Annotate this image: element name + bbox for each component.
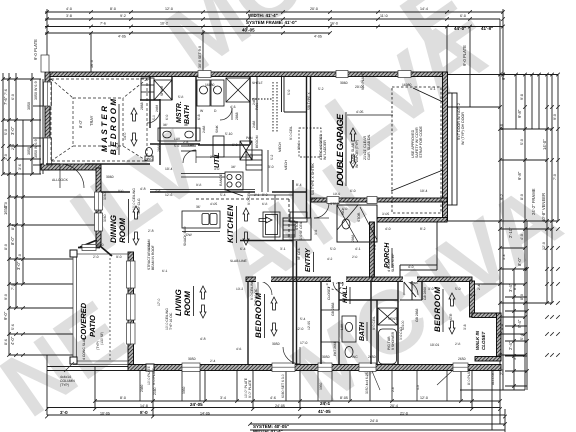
svg-text:4'-0: 4'-0 bbox=[408, 265, 414, 269]
bottom dim line 5 bbox=[250, 429, 505, 431]
window living west 1 bbox=[127, 261, 136, 288]
svg-text:3'-0: 3'-0 bbox=[428, 287, 434, 291]
svg-text:WC: WC bbox=[352, 355, 358, 359]
top dim vertical x447ext bbox=[446, 27, 448, 73]
svg-text:8'-0: 8'-0 bbox=[11, 224, 15, 230]
svg-text:4'-1: 4'-1 bbox=[355, 247, 361, 251]
svg-text:2'-8: 2'-8 bbox=[148, 229, 154, 233]
top dim vertical x203 bbox=[202, 30, 204, 73]
util south wall bbox=[198, 144, 250, 146]
leaders bottom right bbox=[64, 362, 452, 390]
svg-text:(130 SF): (130 SF) bbox=[100, 332, 104, 345]
svg-text:SHELF: SHELF bbox=[252, 81, 263, 85]
svg-text:3050 4x4 6-25: 3050 4x4 6-25 bbox=[365, 372, 369, 394]
top dim vertical x91 bbox=[90, 33, 92, 72]
svg-text:SINK: SINK bbox=[215, 125, 219, 133]
svg-text:16080: 16080 bbox=[402, 83, 412, 87]
svg-text:6'-0: 6'-0 bbox=[165, 114, 169, 120]
svg-text:9'-0: 9'-0 bbox=[553, 114, 557, 120]
left dim vertical x9 bbox=[8, 73, 10, 355]
entry west wall bbox=[292, 241, 294, 364]
room labels (rotated) bbox=[79, 99, 486, 350]
svg-text:MSTR.: MSTR. bbox=[176, 101, 183, 123]
bottom dim vertical x237 bbox=[236, 371, 238, 401]
bottom dim vertical x47 bbox=[46, 355, 48, 415]
svg-text:ALLCOCK: ALLCOCK bbox=[52, 178, 69, 182]
window top wall 1 bbox=[198, 71, 211, 78]
svg-text:9'-2: 9'-2 bbox=[120, 14, 126, 18]
svg-text:7'-0: 7'-0 bbox=[553, 174, 557, 180]
left dim vertical x3 bbox=[2, 73, 4, 174]
svg-text:24'-1: 24'-1 bbox=[320, 401, 331, 406]
hall east wall bbox=[338, 281, 340, 310]
svg-text:3'-6: 3'-6 bbox=[18, 164, 22, 170]
top dim line 1 bbox=[45, 11, 503, 13]
svg-text:8'-0: 8'-0 bbox=[140, 410, 148, 415]
top dim vertical x47 bbox=[46, 9, 48, 72]
attic access dashed bbox=[299, 128, 321, 157]
side dim numbers bbox=[4, 81, 557, 375]
svg-text:2080: 2080 bbox=[140, 384, 144, 392]
bottom dim vertical x461 bbox=[460, 371, 462, 401]
right connector y160 bbox=[500, 159, 547, 161]
scattered annotations bbox=[52, 72, 506, 395]
window top wall 3 bbox=[336, 71, 348, 78]
svg-text:BEAM IN ROOF: BEAM IN ROOF bbox=[151, 245, 155, 270]
svg-text:24'-0: 24'-0 bbox=[370, 419, 378, 423]
left dim vertical x23 bbox=[22, 120, 24, 284]
svg-text:19'-4: 19'-4 bbox=[420, 189, 428, 193]
svg-text:4'-6: 4'-6 bbox=[236, 347, 242, 351]
svg-text:3'-8: 3'-8 bbox=[66, 14, 72, 18]
left dim vertical x32 bbox=[31, 73, 33, 174]
svg-text:STRAP FOR CODE: STRAP FOR CODE bbox=[419, 126, 423, 158]
svg-text:24'-2" FRAME: 24'-2" FRAME bbox=[531, 188, 536, 215]
svg-text:3'-4: 3'-4 bbox=[502, 254, 506, 260]
svg-text:6'-8: 6'-8 bbox=[262, 202, 268, 206]
garage annotations bbox=[345, 112, 347, 186]
dining bay window bbox=[82, 245, 96, 251]
svg-text:5'-4: 5'-4 bbox=[300, 317, 306, 321]
washer dryer bbox=[197, 80, 210, 106]
rotated small dim texts right bbox=[501, 71, 547, 350]
svg-text:SLAB LINE: SLAB LINE bbox=[230, 259, 247, 263]
svg-text:8'-0: 8'-0 bbox=[118, 189, 124, 193]
door garage south 2 bbox=[367, 197, 377, 204]
svg-text:3060: 3060 bbox=[103, 214, 107, 222]
svg-text:W/ LADDER: W/ LADDER bbox=[323, 140, 327, 160]
left connector y79 bbox=[3, 78, 41, 80]
svg-text:ALLCOCK: ALLCOCK bbox=[491, 368, 495, 385]
covered patio outline bbox=[73, 254, 128, 365]
svg-text:2'-1: 2'-1 bbox=[254, 193, 260, 197]
svg-text:2'-0: 2'-0 bbox=[352, 255, 358, 259]
walls: exterior hatched bbox=[41, 72, 501, 371]
right dim vertical x525 bbox=[524, 75, 526, 391]
svg-text:3050: 3050 bbox=[27, 147, 31, 155]
svg-text:TYP 16 OC: TYP 16 OC bbox=[254, 288, 258, 306]
svg-text:8'-4: 8'-4 bbox=[296, 183, 302, 187]
svg-text:HALL: HALL bbox=[342, 286, 349, 303]
mb shower bbox=[154, 80, 172, 100]
svg-text:8'-0: 8'-0 bbox=[4, 244, 8, 250]
svg-text:DOUBLE GARAGE: DOUBLE GARAGE bbox=[335, 113, 345, 186]
tub bbox=[379, 329, 397, 364]
svg-text:ENTRY: ENTRY bbox=[305, 247, 312, 272]
svg-text:COVERED: COVERED bbox=[79, 302, 88, 340]
windows: white boxes on walls bbox=[41, 55, 468, 372]
right connector y303 bbox=[500, 302, 552, 304]
svg-text:LAV: LAV bbox=[340, 323, 344, 330]
bath south wall bbox=[150, 143, 200, 145]
svg-text:14'-8: 14'-8 bbox=[140, 404, 148, 408]
svg-text:3'-0: 3'-0 bbox=[268, 165, 274, 169]
svg-text:40'-8" VENEER: 40'-8" VENEER bbox=[541, 193, 546, 222]
svg-text:5'-0: 5'-0 bbox=[174, 144, 179, 148]
svg-text:8'-0": 8'-0" bbox=[517, 257, 522, 266]
wc toilet bbox=[342, 219, 350, 229]
svg-text:6'-8: 6'-8 bbox=[197, 114, 201, 120]
right connector y229 bbox=[500, 228, 552, 230]
svg-text:6'-8: 6'-8 bbox=[500, 124, 504, 130]
bedroom2 top wall bbox=[372, 277, 472, 282]
hollow arrows bbox=[131, 108, 455, 336]
svg-text:3'-0: 3'-0 bbox=[214, 167, 220, 171]
svg-text:44'-0": 44'-0" bbox=[454, 26, 466, 31]
svg-text:8'-0: 8'-0 bbox=[110, 7, 116, 11]
left connector y225 bbox=[9, 224, 96, 226]
right extra ticks bbox=[512, 267, 529, 388]
window west mid 1 bbox=[95, 192, 103, 210]
svg-text:5'-6: 5'-6 bbox=[11, 324, 15, 330]
svg-text:BATH: BATH bbox=[184, 104, 191, 124]
fixtures bbox=[141, 78, 397, 364]
tray label bbox=[78, 115, 94, 128]
svg-text:5/8 TYPE X: 5/8 TYPE X bbox=[307, 92, 311, 110]
window left wall 1 bbox=[44, 82, 52, 106]
svg-text:2'-8: 2'-8 bbox=[455, 342, 461, 346]
right connector y107 bbox=[447, 106, 500, 108]
bottom dim vertical x95 bbox=[94, 366, 96, 409]
linen closet bbox=[141, 78, 154, 100]
svg-text:3'-0: 3'-0 bbox=[60, 410, 68, 415]
svg-text:2'-8: 2'-8 bbox=[11, 144, 15, 150]
svg-text:9'-2: 9'-2 bbox=[500, 194, 504, 200]
svg-text:7'-6": 7'-6" bbox=[3, 96, 8, 105]
svg-text:MECH: MECH bbox=[278, 141, 282, 152]
svg-text:ROOM: ROOM bbox=[183, 291, 192, 316]
bottom dim line 4 bbox=[250, 423, 505, 425]
svg-text:6'-0: 6'-0 bbox=[460, 14, 466, 18]
window bottom 4 bbox=[359, 363, 376, 372]
bottom ext labels bbox=[244, 372, 369, 398]
garage dashed area bbox=[392, 87, 441, 213]
svg-text:5'-0: 5'-0 bbox=[18, 254, 22, 260]
svg-text:5'-0: 5'-0 bbox=[455, 287, 461, 291]
svg-text:3060: 3060 bbox=[106, 175, 114, 179]
mbr/bath divider bbox=[159, 99, 161, 165]
svg-text:5'-8: 5'-8 bbox=[178, 95, 184, 99]
svg-text:2-8: 2-8 bbox=[391, 387, 395, 392]
west mid wall dining bbox=[96, 168, 101, 247]
svg-text:MECH: MECH bbox=[284, 160, 288, 170]
svg-text:9'-0 PLATE: 9'-0 PLATE bbox=[361, 72, 365, 90]
svg-text:4'-1: 4'-1 bbox=[430, 87, 436, 91]
svg-text:6'-0: 6'-0 bbox=[232, 143, 238, 147]
svg-text:TRAY: TRAY bbox=[89, 115, 94, 126]
svg-text:4'-0: 4'-0 bbox=[520, 234, 524, 240]
svg-text:1'-6: 1'-6 bbox=[373, 244, 377, 250]
left connector y334 bbox=[9, 333, 73, 335]
svg-text:2'-6: 2'-6 bbox=[183, 140, 189, 144]
svg-text:21'-0: 21'-0 bbox=[400, 412, 408, 416]
entry dashed ellipse bbox=[327, 279, 343, 290]
window living west 3 bbox=[127, 323, 136, 344]
svg-text:4'-8: 4'-8 bbox=[140, 187, 146, 191]
svg-text:ROOM: ROOM bbox=[118, 218, 127, 243]
right connector y62 bbox=[447, 74, 558, 76]
svg-text:9'-0 CEIL: 9'-0 CEIL bbox=[289, 126, 293, 140]
right connector y317 bbox=[501, 316, 525, 318]
svg-text:4'-05: 4'-05 bbox=[314, 35, 322, 39]
svg-text:8'-0": 8'-0" bbox=[78, 119, 83, 128]
svg-text:BEDROOM: BEDROOM bbox=[433, 287, 442, 332]
pantry block bbox=[283, 218, 311, 240]
patio posts bbox=[70, 250, 154, 371]
center tiny texts bbox=[118, 73, 476, 363]
svg-text:W/ VAPOR (TYP): W/ VAPOR (TYP) bbox=[355, 140, 359, 168]
svg-text:3'-4: 3'-4 bbox=[220, 396, 226, 400]
svg-text:3050: 3050 bbox=[27, 102, 31, 110]
mech closet / vestibule bbox=[252, 76, 307, 132]
svg-text:4'-05: 4'-05 bbox=[210, 202, 217, 206]
svg-text:8'-0": 8'-0" bbox=[10, 236, 15, 245]
svg-text:W/ (TYP) OH DOOR: W/ (TYP) OH DOOR bbox=[461, 112, 465, 145]
bottom dim line 3 bbox=[47, 414, 505, 416]
util east wall bbox=[249, 76, 251, 145]
right connector y77 bbox=[515, 75, 517, 130]
svg-text:10'-4: 10'-4 bbox=[165, 167, 173, 171]
left connector y174 bbox=[3, 173, 41, 175]
svg-text:SNACK BAR: SNACK BAR bbox=[183, 226, 187, 246]
svg-text:12'-0: 12'-0 bbox=[165, 7, 173, 11]
svg-text:2868: 2868 bbox=[157, 144, 161, 152]
garage south wall bbox=[311, 198, 447, 202]
window centerlines bbox=[47, 82, 49, 106]
svg-text:10'-0 PLATE: 10'-0 PLATE bbox=[147, 365, 151, 385]
svg-text:2868: 2868 bbox=[140, 102, 144, 110]
bath/tub divider bbox=[376, 300, 378, 364]
svg-text:7'-6: 7'-6 bbox=[4, 89, 8, 95]
garage diagonals bbox=[347, 88, 443, 191]
island bbox=[182, 211, 220, 228]
right dim vertical x552 bbox=[551, 75, 553, 304]
closet pod right wall bbox=[497, 313, 502, 360]
svg-text:PATIO: PATIO bbox=[88, 315, 97, 337]
closet pod top wall bbox=[472, 313, 497, 318]
svg-text:6'-0: 6'-0 bbox=[11, 94, 15, 100]
toilet master bbox=[146, 148, 153, 157]
left dim vertical x16 bbox=[15, 73, 17, 308]
right connector y334 bbox=[501, 333, 525, 335]
garage door slab bbox=[448, 93, 458, 205]
svg-text:6'-1: 6'-1 bbox=[162, 269, 168, 273]
svg-text:GAR. SLAB DN.: GAR. SLAB DN. bbox=[367, 134, 371, 160]
svg-text:20'-0: 20'-0 bbox=[310, 7, 318, 11]
svg-text:RANGE: RANGE bbox=[219, 173, 223, 186]
window top wall 2 bbox=[398, 71, 411, 78]
svg-text:10'-05: 10'-05 bbox=[100, 412, 110, 416]
label underlines bbox=[119, 104, 443, 341]
ext line x286 bbox=[285, 371, 287, 401]
door gaps y277 wall bbox=[256, 277, 417, 283]
bedroom2 right wall bbox=[470, 281, 475, 317]
svg-text:13'-2: 13'-2 bbox=[236, 287, 243, 291]
svg-text:2'-10": 2'-10" bbox=[508, 227, 513, 238]
svg-text:30'-0: 30'-0 bbox=[297, 143, 301, 150]
svg-text:9'-0 PLATE: 9'-0 PLATE bbox=[33, 39, 38, 60]
svg-text:5-0: 5-0 bbox=[152, 115, 156, 120]
bedroom1 west wall bbox=[247, 281, 249, 364]
bottom dim line 1 bbox=[95, 400, 500, 402]
svg-text:14'-0: 14'-0 bbox=[123, 132, 127, 140]
small texts bbox=[60, 13, 493, 432]
svg-text:PKT 2668: PKT 2668 bbox=[333, 341, 337, 356]
svg-text:10'-0: 10'-0 bbox=[4, 202, 8, 210]
svg-text:5'-0: 5'-0 bbox=[520, 139, 524, 145]
bottom wall thin continuation bbox=[47, 366, 128, 368]
svg-text:10'-0: 10'-0 bbox=[333, 192, 340, 196]
svg-text:6'-0: 6'-0 bbox=[342, 207, 348, 211]
svg-text:5'-10: 5'-10 bbox=[225, 132, 233, 136]
closet pod bottom wall bbox=[475, 357, 501, 362]
window bottom 2 bbox=[272, 363, 295, 372]
svg-text:5'-2: 5'-2 bbox=[318, 87, 324, 91]
svg-text:17'-0: 17'-0 bbox=[300, 341, 308, 345]
top dim line 3 bbox=[45, 26, 503, 28]
right dim vertical x558 bbox=[557, 75, 559, 222]
extra bottom extension lines bbox=[140, 371, 447, 401]
svg-text:2468: 2468 bbox=[252, 97, 256, 105]
svg-text:4'-4: 4'-4 bbox=[500, 324, 504, 330]
linen closet hall bbox=[321, 310, 339, 342]
svg-text:10'-01: 10'-01 bbox=[430, 343, 439, 347]
svg-text:2'-4: 2'-4 bbox=[477, 284, 481, 290]
vent closet bbox=[378, 308, 397, 325]
right dim vertical x500 bbox=[499, 19, 501, 390]
svg-text:2'-0: 2'-0 bbox=[500, 369, 504, 375]
bottom dim vertical x472 bbox=[471, 371, 473, 409]
bedroom2 closet wall bbox=[421, 281, 423, 300]
svg-text:9'-0 CEIL: 9'-0 CEIL bbox=[372, 316, 376, 330]
svg-text:3050: 3050 bbox=[182, 386, 186, 394]
svg-text:2468: 2468 bbox=[252, 120, 256, 128]
svg-text:12'-4: 12'-4 bbox=[115, 142, 119, 150]
svg-text:7'-0: 7'-0 bbox=[11, 284, 15, 290]
bottom dim vertical x300 bbox=[299, 371, 301, 409]
svg-text:4'-0: 4'-0 bbox=[66, 7, 72, 11]
top dim line 4 bbox=[45, 32, 330, 34]
vanity master bbox=[158, 128, 200, 141]
svg-text:9'-0": 9'-0" bbox=[3, 311, 8, 320]
right connector y355 bbox=[501, 354, 525, 356]
svg-text:41'-05: 41'-05 bbox=[318, 409, 331, 414]
svg-text:2868: 2868 bbox=[235, 112, 239, 120]
bedroom2 closet bbox=[400, 281, 422, 300]
interior south wall bedrooms bbox=[246, 277, 372, 282]
kitchen south wall bbox=[240, 240, 293, 242]
svg-text:10'-2: 10'-2 bbox=[160, 22, 168, 26]
left wall master bedroom bbox=[45, 72, 50, 170]
svg-text:24'-05: 24'-05 bbox=[275, 404, 285, 408]
bottom dim vertical x205 bbox=[204, 371, 206, 401]
svg-text:14'-0": 14'-0" bbox=[542, 139, 547, 150]
svg-text:5'-4: 5'-4 bbox=[220, 193, 226, 197]
porch west wall bbox=[370, 222, 375, 277]
bottom dim line 2 bbox=[47, 407, 500, 409]
svg-text:2468: 2468 bbox=[155, 105, 159, 112]
garage west wall b bbox=[310, 76, 312, 218]
right side extra connectors bbox=[505, 221, 527, 390]
svg-text:9'-8: 9'-8 bbox=[196, 183, 202, 187]
svg-text:2'-0: 2'-0 bbox=[93, 255, 99, 259]
top dim line 2 bbox=[45, 18, 500, 20]
svg-text:4'-2: 4'-2 bbox=[327, 257, 333, 261]
svg-text:8'-05: 8'-05 bbox=[340, 396, 348, 400]
svg-text:9'-0 PLATE: 9'-0 PLATE bbox=[462, 45, 467, 66]
svg-text:16'-0: 16'-0 bbox=[330, 22, 338, 26]
svg-text:30'-0 SET 9-0: 30'-0 SET 9-0 bbox=[198, 46, 202, 68]
left connector y197 bbox=[9, 196, 96, 198]
svg-text:GB 2868: GB 2868 bbox=[423, 287, 427, 300]
right connector y221 bbox=[448, 220, 558, 222]
svg-text:4 CONC SLAB: 4 CONC SLAB bbox=[82, 337, 86, 360]
svg-text:36": 36" bbox=[184, 123, 189, 127]
right connector y129 bbox=[500, 128, 552, 130]
svg-text:4'-6: 4'-6 bbox=[230, 105, 236, 109]
kitchen east wall bbox=[292, 180, 294, 241]
left connector y355 bbox=[9, 354, 73, 356]
svg-text:5'-4: 5'-4 bbox=[520, 334, 524, 340]
left connector y120 bbox=[3, 119, 41, 121]
svg-text:SHWR: SHWR bbox=[160, 85, 164, 96]
svg-text:5'-2: 5'-2 bbox=[270, 154, 274, 160]
right connector y284 bbox=[475, 283, 525, 285]
svg-text:3'-0": 3'-0" bbox=[16, 261, 21, 270]
top dim vertical x470 bbox=[469, 27, 471, 108]
svg-text:14'-4: 14'-4 bbox=[420, 7, 428, 11]
step garage bbox=[282, 215, 284, 217]
bottom dim vertical x253 bbox=[252, 371, 254, 409]
svg-text:5'-0: 5'-0 bbox=[287, 89, 291, 95]
svg-text:4'-8: 4'-8 bbox=[200, 337, 206, 341]
cooktop bbox=[225, 172, 243, 190]
left connector y146 bbox=[9, 145, 41, 147]
svg-text:CLOSET: CLOSET bbox=[327, 286, 331, 300]
svg-text:WALK IN: WALK IN bbox=[475, 330, 480, 350]
garage right wall bbox=[443, 72, 448, 221]
svg-text:3050: 3050 bbox=[319, 382, 323, 390]
wc/stor internals bbox=[283, 205, 377, 242]
svg-text:3050: 3050 bbox=[188, 357, 196, 361]
ext line x370 bbox=[369, 371, 371, 401]
left connector y308 bbox=[9, 307, 73, 309]
svg-text:5'-0 9F CEIL: 5'-0 9F CEIL bbox=[299, 221, 303, 240]
svg-text:2468: 2468 bbox=[202, 125, 206, 133]
wc/stor block bbox=[337, 205, 377, 242]
top dim vertical x503 bbox=[502, 9, 504, 390]
svg-text:BATH: BATH bbox=[359, 321, 366, 341]
